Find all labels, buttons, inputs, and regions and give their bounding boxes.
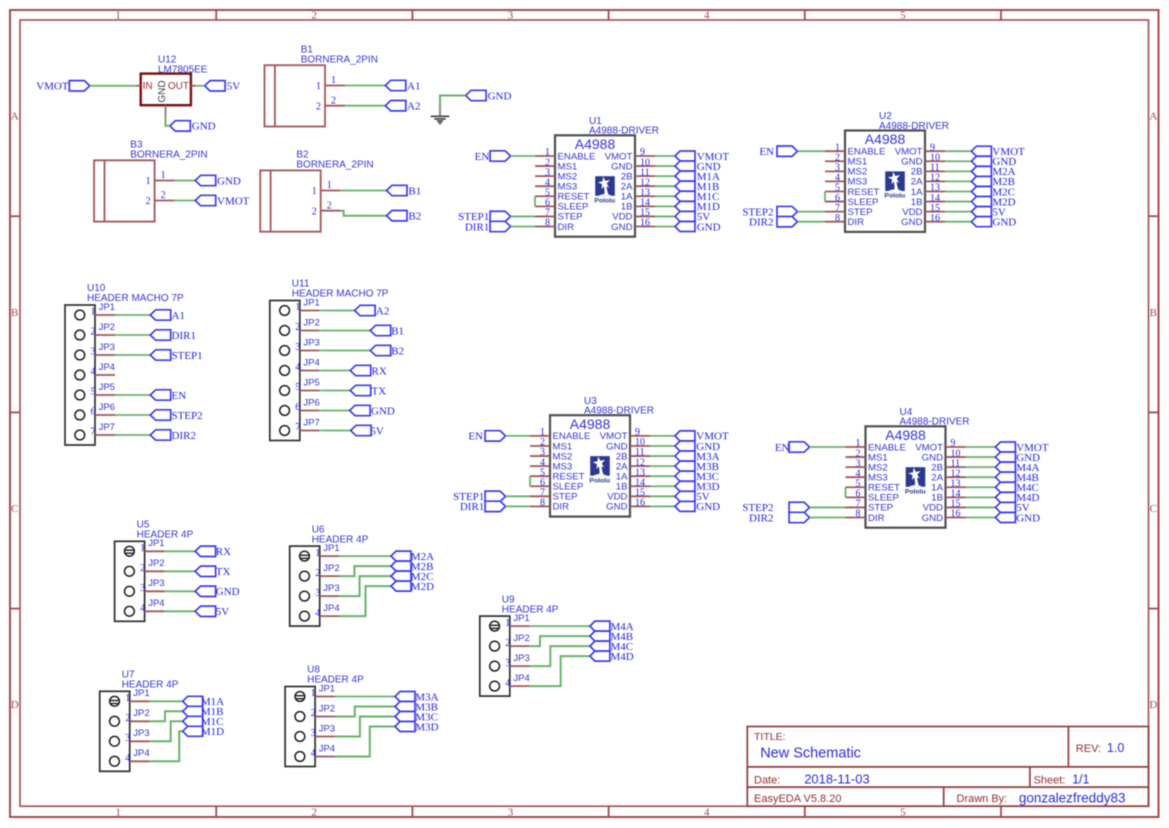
- svg-text:8: 8: [540, 498, 545, 509]
- svg-text:VMOT: VMOT: [217, 195, 250, 207]
- wire DIR2 to U4.8: [810, 516, 846, 518]
- net flag GND under U12: [170, 121, 216, 133]
- net flag EN at U10: [150, 390, 186, 402]
- wire U5.2 to TX: [165, 570, 196, 572]
- U3 wires pins 9-16 to net flags: [650, 436, 675, 506]
- svg-text:5: 5: [91, 387, 96, 398]
- svg-text:A1: A1: [172, 310, 185, 322]
- U5 pin stubs: [145, 551, 165, 611]
- svg-text:Pololu: Pololu: [594, 197, 615, 204]
- net flag M4D at U4 pin 14: [995, 492, 1039, 504]
- B2 pin 2 stub: [321, 210, 341, 212]
- svg-text:JP7: JP7: [303, 417, 319, 428]
- svg-text:B: B: [1150, 307, 1157, 319]
- net flag M1D at U1 pin 14: [675, 201, 720, 213]
- U2 wire RESET-SLEEP bracket: [824, 191, 826, 201]
- wire VMOT to U12.IN: [90, 85, 137, 87]
- U11 pin stubs: [300, 311, 320, 431]
- net flag 5V (output): [205, 81, 241, 93]
- svg-text:5V: 5V: [216, 606, 230, 618]
- svg-text:JP2: JP2: [148, 558, 164, 569]
- net flag GND at U4 pin 16: [995, 512, 1040, 524]
- svg-text:REV:: REV:: [1076, 743, 1101, 755]
- B2 pin 1 stub: [321, 190, 341, 192]
- U4 pin stubs 1-8 and 9-16: [846, 447, 966, 517]
- svg-text:4: 4: [91, 367, 96, 378]
- wire U5.4 to 5V: [165, 610, 196, 612]
- svg-text:EN: EN: [759, 146, 774, 158]
- svg-text:TX: TX: [372, 385, 387, 397]
- wire U10.7 to DIR2: [115, 434, 150, 436]
- svg-text:B2: B2: [391, 345, 404, 357]
- net flag GND at U2 pin 16: [971, 216, 1016, 228]
- wire U11.4 to RX: [320, 370, 350, 372]
- svg-text:VMOT: VMOT: [36, 81, 69, 93]
- svg-text:A4988: A4988: [570, 416, 611, 432]
- net flag GND at U5: [195, 586, 240, 598]
- net flag DIR1 at U1 pin 8: [465, 221, 511, 233]
- svg-text:16: 16: [951, 509, 961, 520]
- wire DIR1 to U1.8: [511, 225, 535, 227]
- svg-text:1: 1: [295, 302, 300, 313]
- net flag GND at B3: [195, 175, 241, 187]
- net flag M1B at U7: [183, 706, 224, 718]
- svg-text:4: 4: [295, 362, 300, 373]
- svg-text:JP2: JP2: [133, 708, 149, 719]
- svg-text:4: 4: [140, 603, 145, 614]
- stepper driver U4 A4988-DRIVER: [866, 407, 970, 528]
- net flag EN at U1 pin 1: [475, 151, 511, 163]
- net flag DIR2 at U4 pin 8: [749, 512, 810, 524]
- net flag M3C at U8: [395, 711, 438, 723]
- svg-text:2: 2: [505, 638, 510, 649]
- svg-text:GND: GND: [697, 221, 721, 233]
- wire B2.1 to net B1: [341, 190, 387, 192]
- svg-text:1.0: 1.0: [1107, 741, 1124, 755]
- net flag M2A at U6: [391, 551, 434, 563]
- net flag M2C at U6: [391, 571, 433, 583]
- wire U11.7 to 5V: [320, 430, 350, 432]
- svg-text:M4D: M4D: [611, 651, 634, 663]
- wire U10.6 to STEP2: [115, 414, 150, 416]
- svg-text:GND: GND: [922, 513, 943, 524]
- svg-text:EN: EN: [468, 431, 483, 443]
- svg-text:JP2: JP2: [323, 563, 339, 574]
- wire STEP2 to U2.7: [798, 211, 826, 213]
- net flag VMOT at U3 pin 9: [675, 431, 729, 443]
- svg-text:JP3: JP3: [323, 583, 339, 594]
- svg-text:2: 2: [146, 196, 151, 207]
- net flag M4B at U9: [590, 631, 633, 643]
- svg-text:5V: 5V: [227, 81, 241, 93]
- svg-text:JP1: JP1: [133, 688, 149, 699]
- wire U8.2 to M3B: [335, 707, 395, 717]
- U7 pin1 polarity marks: [110, 701, 120, 704]
- header U9 HEADER 4P: [480, 594, 559, 696]
- svg-text:3: 3: [125, 733, 130, 744]
- U1 wires pins 9-16 to net flags: [655, 156, 675, 226]
- net flag 5V at U1 pin 15: [675, 211, 710, 223]
- svg-text:A: A: [11, 111, 19, 123]
- header U11 HEADER MACHO 7P: [270, 279, 389, 441]
- svg-text:JP5: JP5: [303, 377, 319, 388]
- wire STEP2 to U4.7: [810, 506, 846, 508]
- svg-text:3: 3: [311, 728, 316, 739]
- svg-text:8: 8: [856, 509, 861, 520]
- svg-text:3: 3: [508, 10, 514, 22]
- wire B3.2 to VMOT: [175, 200, 196, 202]
- svg-text:1: 1: [316, 81, 321, 92]
- wire U11.6 to GND: [320, 410, 349, 412]
- svg-text:3: 3: [91, 347, 96, 358]
- U10 pin stubs: [95, 315, 115, 435]
- U4 wires pins 9-16 to net flags: [966, 447, 996, 517]
- net flag VMOT at U2 pin 9: [971, 146, 1025, 158]
- net flag M2D at U2 pin 14: [971, 196, 1015, 208]
- svg-text:JP1: JP1: [323, 543, 339, 554]
- wire EN to U2.1: [798, 150, 826, 152]
- B3 pin 1 stub: [155, 180, 175, 182]
- svg-text:DIR2: DIR2: [172, 430, 196, 442]
- svg-text:4: 4: [125, 753, 130, 764]
- svg-text:Sheet:: Sheet:: [1034, 774, 1066, 786]
- svg-text:JP4: JP4: [303, 357, 319, 368]
- net flag M3A at U8: [395, 691, 439, 703]
- svg-text:1: 1: [161, 170, 166, 181]
- header U5 HEADER 4P: [115, 520, 194, 622]
- B3 pin 2 stub: [155, 200, 175, 202]
- net flag M1B at U1 pin 12: [675, 181, 719, 193]
- svg-text:JP2: JP2: [513, 633, 529, 644]
- svg-text:B2: B2: [408, 211, 421, 223]
- svg-text:DIR: DIR: [558, 222, 575, 233]
- svg-text:2: 2: [140, 563, 145, 574]
- net flag M1C at U1 pin 13: [675, 191, 719, 203]
- U3 Pololu logo: [589, 456, 610, 484]
- svg-text:4: 4: [704, 10, 710, 22]
- U9 pin stubs: [510, 626, 530, 686]
- svg-text:3: 3: [505, 658, 510, 669]
- svg-text:EN: EN: [172, 390, 187, 402]
- net flag STEP1 at U10: [150, 350, 202, 362]
- stepper driver U3 A4988-DRIVER: [550, 396, 654, 517]
- net flag 5V at U5: [195, 606, 229, 618]
- svg-text:1: 1: [140, 543, 145, 554]
- svg-text:JP1: JP1: [303, 297, 319, 308]
- svg-text:JP4: JP4: [133, 748, 149, 759]
- svg-text:M2D: M2D: [411, 581, 434, 593]
- svg-text:GND: GND: [371, 405, 395, 417]
- net flag M4A at U4 pin 11: [995, 462, 1039, 474]
- svg-text:2: 2: [312, 206, 317, 217]
- svg-text:JP6: JP6: [99, 402, 115, 413]
- header U6 HEADER 4P: [290, 524, 369, 626]
- net flag DIR2 at U2 pin 8: [749, 216, 797, 228]
- svg-text:JP1: JP1: [513, 613, 529, 624]
- U2 pin stubs 1-8 and 9-16: [825, 151, 945, 221]
- svg-text:HEADER 4P: HEADER 4P: [122, 680, 179, 691]
- net flag GND (ground island): [466, 90, 512, 102]
- B1 pin 1 stub: [325, 85, 345, 87]
- net flag M2A at U2 pin 11: [971, 166, 1015, 178]
- net flag EN at U4 pin 1: [775, 442, 810, 454]
- header U10 HEADER MACHO 7P: [65, 283, 184, 445]
- wire U11.5 to TX: [320, 390, 350, 392]
- net flag M4A at U9: [590, 621, 634, 633]
- wire B1.1 to A1: [345, 85, 385, 87]
- net flag STEP2 at U4 pin 7: [742, 502, 809, 514]
- wire B1.2 to A2: [345, 105, 385, 107]
- U4 wire RESET-SLEEP bracket: [845, 487, 847, 497]
- wire U12.OUT to 5V: [196, 85, 205, 87]
- U6 pin stubs: [320, 556, 340, 616]
- svg-text:JP5: JP5: [99, 382, 115, 393]
- svg-text:GND: GND: [1016, 512, 1040, 524]
- net flag M3C at U3 pin 13: [675, 471, 719, 483]
- net flag VMOT at B3: [195, 195, 249, 207]
- net flag M4B at U4 pin 12: [995, 472, 1038, 484]
- wire U8.3 to M3C: [335, 717, 395, 737]
- stepper driver U2 A4988-DRIVER: [845, 111, 949, 232]
- svg-text:5: 5: [295, 382, 300, 393]
- wire EN to U1.1: [511, 155, 535, 157]
- svg-text:JP7: JP7: [99, 422, 115, 433]
- wire U6.2 to M2B: [340, 566, 391, 576]
- U8 pin1 polarity marks: [296, 696, 306, 699]
- svg-text:6: 6: [295, 402, 300, 413]
- svg-text:6: 6: [91, 407, 96, 418]
- net flag DIR1 at U3 pin 8: [460, 501, 506, 513]
- wire EN to U4.1: [810, 446, 846, 448]
- net flag RX at U5: [195, 546, 231, 558]
- svg-text:B: B: [11, 307, 18, 319]
- svg-text:GND: GND: [992, 216, 1016, 228]
- wire U11.1 to A2: [320, 310, 354, 312]
- svg-text:New Schematic: New Schematic: [760, 746, 861, 762]
- net flag TX at U5: [195, 566, 230, 578]
- wire U6.4 to M2D: [340, 586, 391, 616]
- svg-text:JP1: JP1: [99, 302, 115, 313]
- svg-text:GND: GND: [488, 90, 512, 102]
- svg-text:GND: GND: [192, 121, 216, 133]
- net flag A1: [385, 80, 420, 92]
- wire U12.GND to GND flag: [166, 115, 170, 126]
- svg-text:8: 8: [835, 213, 840, 224]
- svg-text:GND: GND: [216, 586, 240, 598]
- wire U10.5 to EN: [115, 394, 150, 396]
- svg-text:7: 7: [91, 427, 96, 438]
- svg-text:A4988: A4988: [575, 136, 616, 152]
- svg-text:4: 4: [311, 748, 316, 759]
- svg-text:3: 3: [140, 583, 145, 594]
- svg-text:D: D: [1149, 699, 1157, 711]
- svg-text:DIR1: DIR1: [172, 330, 196, 342]
- svg-text:2: 2: [312, 10, 318, 22]
- svg-text:TITLE:: TITLE:: [754, 731, 786, 743]
- net flag M2B at U6: [391, 561, 433, 573]
- svg-text:JP4: JP4: [99, 362, 115, 373]
- svg-text:2: 2: [315, 568, 320, 579]
- svg-text:M3D: M3D: [415, 721, 438, 733]
- svg-text:1: 1: [311, 688, 316, 699]
- U3 pin stubs 1-8 and 9-16: [530, 436, 650, 506]
- svg-text:JP4: JP4: [148, 598, 164, 609]
- svg-text:EN: EN: [775, 442, 790, 454]
- svg-text:GND: GND: [901, 217, 922, 228]
- net flag A2 at U11: [355, 305, 390, 317]
- svg-text:1: 1: [115, 10, 121, 22]
- wire U10.3 to STEP1: [115, 354, 150, 356]
- wire U10.2 to DIR1: [115, 334, 150, 336]
- svg-text:1: 1: [505, 618, 510, 629]
- U12 pin GND stub (gray): [165, 105, 167, 115]
- svg-text:GND: GND: [611, 222, 632, 233]
- wire STEP1 to U1.7: [511, 215, 535, 217]
- svg-text:1: 1: [312, 186, 317, 197]
- svg-text:JP3: JP3: [133, 728, 149, 739]
- svg-text:A4988: A4988: [865, 131, 906, 147]
- svg-text:BORNERA_2PIN: BORNERA_2PIN: [296, 160, 373, 171]
- stepper driver U1 A4988-DRIVER: [555, 116, 659, 237]
- svg-text:JP2: JP2: [303, 317, 319, 328]
- U7 pin stubs: [130, 701, 150, 761]
- net flag M1D at U7: [183, 726, 224, 738]
- net flag M3D at U8: [395, 721, 439, 733]
- svg-text:4: 4: [505, 678, 510, 689]
- svg-text:C: C: [11, 503, 18, 515]
- svg-text:4: 4: [704, 807, 710, 819]
- net flag GND at U2 pin 10: [971, 156, 1016, 168]
- svg-text:JP4: JP4: [319, 743, 335, 754]
- svg-text:2: 2: [331, 95, 336, 106]
- svg-text:DIR2: DIR2: [749, 216, 773, 228]
- svg-text:2: 2: [311, 708, 316, 719]
- U6 pin1 polarity marks: [300, 555, 310, 558]
- svg-text:C: C: [1150, 503, 1157, 515]
- svg-text:B1: B1: [408, 185, 421, 197]
- U12 pin OUT stub: [191, 85, 196, 87]
- net flag VMOT at U1 pin 9: [675, 151, 729, 163]
- wire U7.3 to M1C: [150, 721, 183, 741]
- net flag DIR2 at U10: [150, 430, 196, 442]
- U8 pin stubs: [315, 697, 335, 757]
- wire DIR1 to U3.8: [506, 505, 530, 507]
- svg-text:B1: B1: [391, 325, 404, 337]
- net flag M2B at U2 pin 12: [971, 176, 1015, 188]
- svg-text:DIR: DIR: [553, 502, 570, 513]
- svg-text:3: 3: [315, 588, 320, 599]
- svg-text:DIR1: DIR1: [465, 221, 489, 233]
- net flag M1A at U1 pin 11: [675, 171, 720, 183]
- svg-text:Pololu: Pololu: [905, 488, 926, 495]
- svg-text:1: 1: [327, 180, 332, 191]
- svg-text:7: 7: [295, 422, 300, 433]
- svg-text:GND: GND: [606, 502, 627, 513]
- net flag B1 at U11: [370, 325, 404, 337]
- net flag GND at U1 pin 10: [675, 161, 721, 173]
- net flag 5V at U3 pin 15: [675, 491, 710, 503]
- wire U7.1 to M1A: [150, 700, 183, 702]
- net flag STEP1 at U3 pin 7: [453, 491, 505, 503]
- net flag STEP2 at U10: [150, 410, 202, 422]
- net flag M3A at U3 pin 11: [675, 451, 720, 463]
- svg-text:HEADER 4P: HEADER 4P: [307, 675, 364, 686]
- wire B2.2 to net B2 (jogged): [341, 211, 387, 216]
- net flag M1C at U7: [183, 716, 224, 728]
- svg-text:1: 1: [125, 693, 130, 704]
- net flag 5V at U2 pin 15: [971, 206, 1006, 218]
- wire U7.4 to M1D: [150, 731, 183, 761]
- net flag B1: [387, 185, 422, 197]
- svg-text:STEP2: STEP2: [172, 410, 203, 422]
- svg-text:Pololu: Pololu: [589, 477, 610, 484]
- svg-text:JP1: JP1: [148, 538, 164, 549]
- svg-text:LM7805EE: LM7805EE: [158, 65, 208, 76]
- svg-text:HEADER 4P: HEADER 4P: [137, 530, 194, 541]
- wire U7.2 to M1B: [150, 711, 183, 721]
- svg-text:JP3: JP3: [148, 578, 164, 589]
- svg-text:JP1: JP1: [319, 683, 335, 694]
- net flag GND at U4 pin 10: [995, 452, 1040, 464]
- net flag A1 at U10: [150, 310, 185, 322]
- net flag M4C at U4 pin 13: [995, 482, 1038, 494]
- svg-text:2018-11-03: 2018-11-03: [804, 771, 870, 786]
- net flag M3B at U3 pin 12: [675, 461, 719, 473]
- svg-text:DIR: DIR: [848, 217, 865, 228]
- svg-text:STEP1: STEP1: [172, 350, 203, 362]
- U9 pin1 polarity marks: [490, 625, 500, 628]
- U2 pin numbers: [835, 142, 940, 223]
- net flag B2: [387, 211, 422, 223]
- svg-text:2: 2: [91, 327, 96, 338]
- voltage regulator U12 LM7805EE: [141, 54, 208, 105]
- wire U11.2 to B1: [320, 330, 370, 332]
- svg-text:16: 16: [635, 498, 645, 509]
- net flag B2 at U11: [370, 345, 404, 357]
- svg-text:A2: A2: [376, 305, 389, 317]
- svg-text:JP3: JP3: [99, 342, 115, 353]
- svg-text:2: 2: [161, 190, 166, 201]
- connector B2 BORNERA_2PIN: [260, 150, 373, 232]
- svg-text:2: 2: [327, 200, 332, 211]
- svg-text:RX: RX: [372, 365, 387, 377]
- svg-text:2: 2: [316, 101, 321, 112]
- header U7 HEADER 4P: [100, 670, 179, 772]
- ground: [431, 106, 450, 123]
- svg-text:OUT: OUT: [168, 81, 189, 92]
- wire U5.1 to RX: [165, 550, 196, 552]
- connector B3 BORNERA_2PIN: [94, 139, 207, 221]
- net flag M1A at U7: [183, 696, 224, 708]
- wire U8.1 to M3A: [335, 696, 395, 698]
- U3 pin numbers: [540, 427, 645, 508]
- svg-text:JP4: JP4: [323, 603, 339, 614]
- wire STEP1 to U3.7: [506, 495, 530, 497]
- svg-text:TX: TX: [216, 566, 231, 578]
- svg-text:5V: 5V: [370, 425, 384, 437]
- B1 pin 2 stub: [325, 105, 345, 107]
- svg-text:2: 2: [295, 322, 300, 333]
- svg-text:JP2: JP2: [319, 703, 335, 714]
- svg-text:D: D: [11, 699, 19, 711]
- svg-text:JP3: JP3: [303, 337, 319, 348]
- net flag M2C at U2 pin 13: [971, 186, 1015, 198]
- net flag M4D at U9: [590, 651, 634, 663]
- net flag VMOT (input): [36, 81, 90, 93]
- net flag M4C at U9: [590, 641, 633, 653]
- wire EN to U3.1: [506, 435, 530, 437]
- connector B1 BORNERA_2PIN: [265, 44, 378, 126]
